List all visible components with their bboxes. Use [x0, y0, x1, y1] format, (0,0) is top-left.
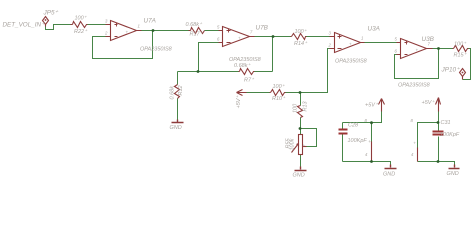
svg-text:2: 2 — [328, 43, 332, 48]
ground GND R12 — [172, 120, 184, 123]
wire C28 top rail — [343, 112, 382, 123]
svg-text:1: 1 — [361, 36, 364, 41]
svg-text:R7⁺: R7⁺ — [244, 77, 255, 83]
svg-text:GND: GND — [293, 173, 305, 179]
svg-text:DET_VOL_IN⁺: DET_VOL_IN⁺ — [3, 21, 45, 28]
svg-text:100KpF: 100KpF — [348, 138, 368, 144]
svg-text:OPA2350IS8: OPA2350IS8 — [140, 47, 173, 53]
svg-text:100⁺: 100⁺ — [273, 84, 286, 90]
supply +5V arrow up (C31) — [436, 98, 441, 112]
svg-text:JP10⁺: JP10⁺ — [441, 66, 461, 73]
svg-text:R14⁺: R14⁺ — [294, 41, 308, 47]
wire U7A feedback loop — [93, 31, 153, 59]
resistor R22 — [71, 22, 88, 28]
svg-text:GND: GND — [170, 125, 182, 131]
pin JP5 diamond — [43, 17, 49, 27]
svg-text:6: 6 — [395, 49, 398, 54]
ground GND C31 — [449, 165, 460, 169]
svg-text:3: 3 — [105, 19, 108, 24]
svg-text:+: + — [368, 139, 371, 144]
svg-text:4: 4 — [365, 152, 368, 157]
wire C31 bottom rail — [418, 162, 455, 165]
pin JP10 diamond — [460, 69, 466, 80]
junction U3B out — [437, 47, 440, 50]
wire U7 power pin upper — [371, 123, 373, 142]
wire C31 +5V stem green — [438, 112, 440, 123]
wire R15 to JP10 — [463, 49, 471, 80]
wire R7 feedback horizontal right — [255, 71, 273, 73]
svg-text:OPA2350IS8: OPA2350IS8 — [335, 58, 368, 64]
svg-text:100⁺: 100⁺ — [75, 16, 88, 22]
wire +5V arrow to R10 — [247, 92, 270, 94]
op-amp U3A — [335, 33, 361, 53]
wire U3A - input down to bias node — [301, 49, 330, 93]
svg-text:R10⁺: R10⁺ — [272, 96, 286, 102]
wire R12 to GND — [177, 99, 179, 120]
ground GND C28 — [385, 165, 397, 169]
wire C28 bottom lead — [342, 135, 344, 162]
svg-text:8: 8 — [411, 118, 414, 123]
svg-text:+: + — [416, 48, 419, 53]
wire U7A output to R17 — [142, 30, 189, 32]
svg-text:R12: R12 — [178, 85, 184, 95]
wire R17 to U7B + input — [205, 30, 219, 32]
svg-text:C31: C31 — [441, 120, 451, 126]
svg-text:0.68k⁺: 0.68k⁺ — [234, 63, 251, 69]
svg-text:1: 1 — [138, 24, 141, 29]
wire R14 to U3A + input — [307, 36, 330, 38]
wire U3A output to U3B + input — [365, 42, 397, 44]
junction bias node — [299, 91, 302, 94]
svg-text:100⁺: 100⁺ — [454, 41, 467, 47]
svg-text:100KpF: 100KpF — [440, 132, 460, 138]
wire U7B feedback vertical — [272, 37, 274, 72]
svg-text:GND: GND — [383, 172, 395, 178]
svg-text:U7A: U7A — [144, 18, 156, 25]
wire pot bottom to GND — [300, 155, 302, 167]
pin dot JP5 — [45, 19, 47, 21]
wire U7B - input to node — [199, 43, 219, 72]
svg-text:+: + — [413, 140, 416, 145]
svg-text:0.68k: 0.68k — [169, 86, 175, 100]
junction U7B out — [272, 35, 275, 38]
junction R7/R12 node — [197, 70, 200, 73]
junction U7A out — [152, 29, 155, 32]
wire R13 to pot top — [300, 118, 302, 135]
svg-text:100: 100 — [293, 103, 299, 113]
ground GND pot — [295, 167, 307, 171]
wire bias node down to R13 — [300, 93, 302, 106]
svg-text:4: 4 — [411, 152, 414, 157]
resistor R10 — [270, 90, 286, 96]
svg-text:100k: 100k — [290, 138, 296, 150]
wire U3B output to R15 — [433, 48, 453, 50]
svg-text:GND: GND — [447, 171, 459, 177]
resistor R15 — [453, 46, 469, 52]
svg-text:0.68k⁺: 0.68k⁺ — [186, 22, 203, 28]
power pin U7 V- — [371, 142, 373, 162]
svg-text:R15⁺: R15⁺ — [454, 52, 468, 58]
resistor R12 — [175, 85, 180, 99]
wire R7 feedback horizontal left — [178, 71, 239, 73]
junction C28 top — [370, 121, 373, 124]
svg-text:C28: C28 — [348, 123, 359, 129]
op-amp U7A — [111, 21, 137, 41]
power pin U3 V- — [417, 148, 419, 162]
supply +5V arrow left (bias) — [237, 90, 247, 96]
svg-text:5: 5 — [395, 37, 398, 42]
op-amp U7B — [223, 27, 250, 47]
capacitor C28 — [339, 130, 348, 134]
svg-text:+: + — [126, 30, 129, 35]
wire U3B feedback loop — [395, 49, 439, 79]
resistor R13 — [298, 106, 303, 118]
svg-text:OPA2350IS8: OPA2350IS8 — [398, 82, 431, 88]
svg-text:R22⁺: R22⁺ — [74, 29, 88, 35]
wire pot wiper loop — [301, 129, 317, 147]
wire R22 to U7A + input — [88, 24, 107, 26]
svg-text:6: 6 — [217, 37, 220, 42]
junction C31 top — [437, 121, 440, 124]
resistor R14 — [291, 34, 307, 40]
svg-text:+: + — [238, 36, 241, 41]
svg-text:R13: R13 — [302, 100, 308, 111]
svg-text:U7B: U7B — [256, 25, 269, 32]
capacitor C31 — [433, 132, 444, 135]
wire U7B output to R14 — [255, 36, 291, 38]
wire C31 top lead — [438, 123, 440, 131]
junction C28 bottom — [370, 160, 373, 163]
svg-text:7: 7 — [250, 30, 253, 35]
svg-text:U3A: U3A — [368, 26, 380, 33]
svg-text:5: 5 — [217, 25, 220, 30]
svg-text:+5V⁺: +5V⁺ — [236, 95, 242, 109]
svg-text:+: + — [349, 42, 352, 47]
potentiometer R55 — [299, 135, 303, 155]
wire node to R12 — [177, 72, 179, 85]
wire C31 bottom lead — [438, 137, 440, 162]
svg-text:+: + — [303, 143, 306, 148]
svg-text:100⁺: 100⁺ — [295, 29, 308, 35]
svg-text:OPA2350IS8: OPA2350IS8 — [229, 57, 262, 63]
junction pot top — [299, 127, 302, 130]
resistor R17 — [189, 28, 205, 34]
svg-text:3: 3 — [329, 31, 332, 36]
junction C31 bottom — [437, 160, 440, 163]
wire C28 bottom rail — [343, 162, 391, 165]
pin dot JP10 — [462, 72, 464, 74]
svg-text:R17⁺: R17⁺ — [190, 31, 204, 37]
svg-text:JP5⁺: JP5⁺ — [43, 10, 59, 17]
wire C28 top lead — [342, 123, 344, 129]
supply +5V arrow up (C28) — [379, 99, 385, 112]
op-amp U3B — [401, 39, 427, 59]
svg-text:+5V⁺: +5V⁺ — [365, 102, 379, 108]
svg-text:2: 2 — [104, 31, 108, 36]
wire R10 to bias node — [286, 92, 301, 94]
resistor R7 — [239, 69, 255, 75]
svg-text:+5V⁺: +5V⁺ — [422, 100, 436, 106]
wire JP5 to R22 — [46, 25, 71, 30]
wire C31 left branch — [418, 123, 439, 148]
